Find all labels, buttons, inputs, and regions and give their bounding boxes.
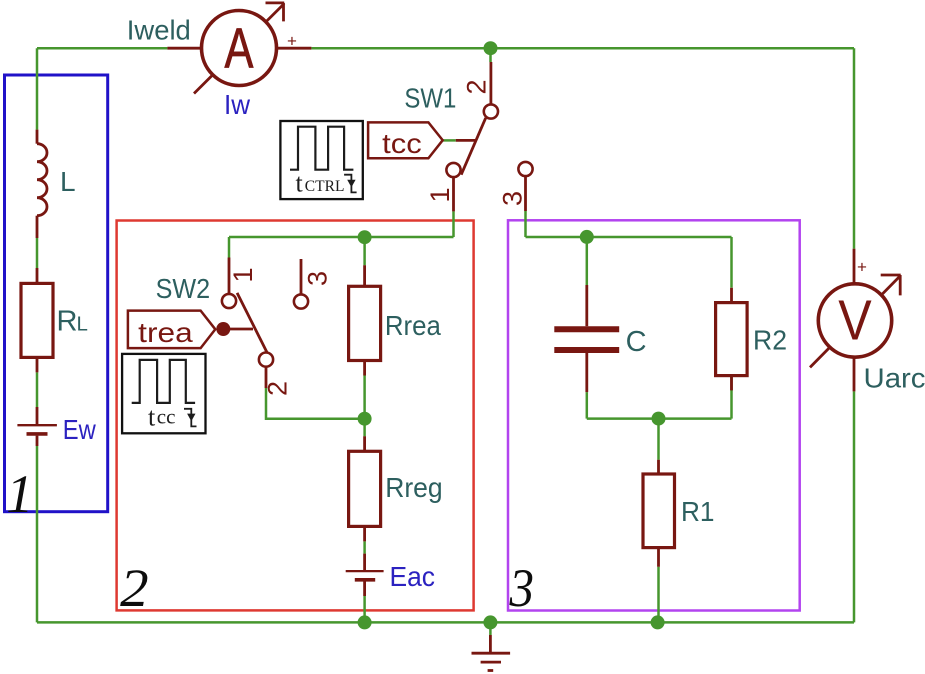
svg-text:Uarc: Uarc	[864, 363, 925, 394]
junction cap top	[580, 230, 594, 244]
resistor Rrea	[349, 265, 381, 375]
box region 2	[117, 221, 474, 611]
waveform icon tCTRL	[280, 121, 362, 199]
svg-text:SW1: SW1	[404, 83, 456, 114]
svg-text:2: 2	[120, 558, 149, 618]
wire SW2 pin2 down	[266, 388, 365, 419]
wire Rrea bottom	[363, 376, 366, 419]
svg-text:3: 3	[509, 558, 534, 618]
wire R1 top	[657, 419, 660, 460]
resistor R1	[643, 460, 675, 567]
svg-text:1: 1	[6, 464, 33, 524]
junction R1 top	[652, 412, 666, 426]
box region 3	[508, 220, 800, 610]
junction Rrea top	[358, 230, 372, 244]
waveform icon tcc	[122, 354, 205, 433]
junction Rrea bottom	[358, 412, 372, 426]
svg-text:Iweld: Iweld	[127, 14, 191, 45]
svg-text:R1: R1	[681, 496, 715, 527]
inductor L	[37, 130, 47, 238]
wire Rreg bottom	[363, 541, 366, 553]
svg-text:V: V	[838, 288, 872, 352]
svg-text:t: t	[296, 169, 304, 198]
wire R2 top	[730, 237, 733, 288]
wire SW1 pin2 stub	[489, 48, 492, 62]
svg-text:L: L	[60, 166, 76, 197]
wire region3 top rail	[526, 236, 732, 239]
switch SW1	[446, 62, 532, 211]
svg-text:t: t	[148, 403, 156, 432]
svg-text:tcc: tcc	[382, 128, 422, 159]
svg-text:cc: cc	[157, 405, 176, 429]
wire ground stub	[489, 622, 492, 635]
wire left vertical	[36, 48, 39, 622]
svg-text:Rreg: Rreg	[385, 472, 443, 503]
wire bottom	[37, 621, 854, 624]
junction top	[484, 41, 498, 55]
wire R2 bottom	[730, 376, 733, 419]
svg-text:1: 1	[228, 267, 258, 282]
switch SW2	[222, 258, 308, 389]
svg-text:Eac: Eac	[390, 561, 436, 592]
wire Eac bottom	[363, 596, 366, 622]
resistor Rreg	[349, 436, 381, 541]
junction Eac bottom	[358, 615, 372, 629]
svg-text:R2: R2	[753, 324, 787, 355]
wire top right	[311, 47, 854, 50]
wire cap top	[586, 237, 589, 285]
junction R1 bottom	[651, 615, 665, 629]
wire region3 mid rail	[587, 417, 732, 420]
resistor RL	[21, 268, 53, 372]
svg-text:C: C	[626, 326, 647, 358]
wire SW2 pin1	[228, 237, 231, 258]
junction ground	[483, 615, 497, 629]
box region 1	[5, 75, 108, 512]
ground	[472, 635, 511, 671]
svg-text:Ew: Ew	[63, 414, 97, 445]
wire R1 bottom	[657, 567, 660, 623]
battery Ew	[17, 407, 57, 446]
svg-text:trea: trea	[138, 317, 193, 348]
ammeter U_A	[167, 3, 311, 94]
wire Rreg top	[363, 419, 366, 437]
SW2 common dot	[216, 322, 230, 336]
capacitor C	[554, 285, 619, 392]
wire SW1 pin1 to node	[452, 211, 455, 237]
wire cap bottom	[586, 392, 589, 419]
battery Eac	[346, 554, 384, 596]
svg-text:2: 2	[263, 381, 293, 396]
global label tcc	[368, 122, 443, 158]
svg-text:+: +	[857, 258, 867, 277]
voltmeter U_V	[810, 249, 901, 392]
svg-text:2: 2	[462, 79, 492, 94]
wire Rrea top	[363, 237, 366, 265]
svg-text:3: 3	[498, 191, 528, 206]
svg-text:A: A	[225, 16, 254, 80]
wire top left	[37, 47, 167, 50]
wire node row2 horizontal	[229, 236, 454, 239]
resistor R2	[716, 288, 748, 391]
svg-text:1: 1	[425, 187, 455, 202]
wire right vertical	[853, 48, 856, 622]
svg-text:+: +	[287, 32, 297, 51]
svg-text:Iw: Iw	[224, 89, 251, 120]
wire SW1 pin3 to region3	[524, 211, 527, 237]
svg-text:Rrea: Rrea	[385, 310, 441, 341]
svg-text:3: 3	[303, 271, 333, 286]
svg-text:CTRL: CTRL	[305, 178, 345, 195]
svg-text:SW2: SW2	[156, 273, 211, 304]
global label trea	[128, 311, 215, 349]
